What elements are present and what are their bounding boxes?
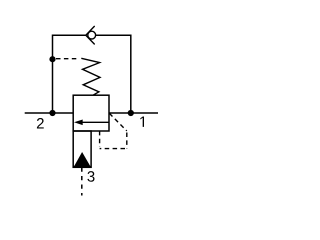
- wire: right vertical branch: [130, 35, 132, 113]
- pilot line (dashed) right vertical of loop: [126, 133, 128, 149]
- node C: junction dot right on main line: [128, 110, 134, 116]
- pilot line (dashed) from node A to spring: [56, 58, 79, 60]
- wire: top line right segment (check valve to right corner): [96, 34, 131, 36]
- node A: junction dot on left branch: [49, 56, 55, 62]
- port 3 dashed drain line: [81, 168, 83, 196]
- wire: left vertical branch: [52, 35, 54, 113]
- port label 3: [87, 171, 94, 182]
- spring K1 (zigzag): [81, 58, 100, 95]
- flow path arrow inside V1 (line): [81, 121, 110, 123]
- pilot line (dashed) bottom horizontal of loop: [100, 148, 125, 150]
- wire: port 2 line (left): [25, 112, 73, 114]
- check valve CV1: ball circle: [88, 31, 96, 39]
- wire: port 1 line (right): [109, 112, 158, 114]
- valve body box V1: [73, 95, 109, 131]
- check valve CV1: seat V: [86, 26, 95, 44]
- pilot line (dashed) left vertical of loop to valve bottom: [99, 131, 101, 147]
- port label 2: [37, 118, 44, 128]
- node B: junction dot left on main line: [49, 110, 55, 116]
- flow path arrow inside V1 (solid head pointing left): [74, 120, 83, 126]
- wire: top line left segment (left corner to check valve seat): [53, 34, 86, 36]
- port label 1: [140, 117, 144, 127]
- filled seat triangle in drain box: [74, 152, 90, 166]
- drain box below valve: [73, 131, 91, 167]
- drain base line: [73, 166, 91, 168]
- pilot line (dashed) diagonal from port 1 junction: [109, 113, 127, 131]
